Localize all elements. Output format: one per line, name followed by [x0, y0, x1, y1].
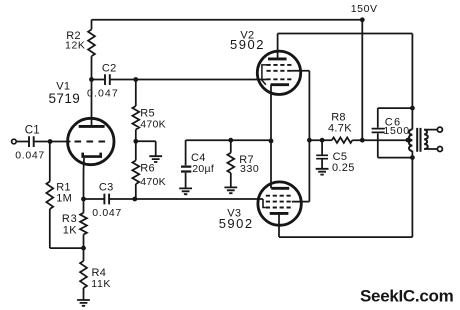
capacitor C5: [321, 140, 323, 154]
node: R1/R3/R4: [81, 246, 86, 251]
V3 control grid entry jog: [263, 199, 266, 208]
wire: R2/C2/V1-plate node to C2: [92, 79, 105, 81]
pentode V2 envelope: [257, 51, 300, 94]
svg-text:R8: R8: [331, 111, 346, 123]
wire: primary bottom to V3 cathode return: [411, 151, 413, 237]
V2 plate: [268, 57, 287, 60]
wire: V3 cathode return: [279, 236, 412, 238]
svg-text:4.7K: 4.7K: [328, 123, 352, 135]
node: C6 bottom/primary bottom: [410, 155, 415, 160]
V3 cathode: [270, 212, 289, 215]
wire: screen bus V2-V3: [308, 71, 310, 202]
wire: B+ top rail from R2 top to 150V node: [92, 19, 363, 21]
wire: C3 to V3 control grid: [110, 198, 263, 200]
wire: V2 plate rail to output transformer: [278, 33, 413, 35]
ground: below C5: [316, 169, 329, 175]
node: primary tap: [406, 138, 411, 143]
capacitor C2: [105, 74, 110, 85]
wire: V3 screen lead: [292, 201, 310, 203]
V1 grid (dashed): [75, 141, 107, 143]
svg-text:11K: 11K: [91, 278, 111, 290]
output terminal top: [437, 127, 442, 132]
V2 suppressor-cathode tie: [262, 65, 267, 85]
wire: C2 to V2 control grid: [111, 79, 267, 81]
ground: below C4: [179, 188, 192, 194]
capacitor C4: [185, 140, 187, 165]
wire: V1 cathode lead: [83, 158, 86, 199]
svg-text:SeekIC.com: SeekIC.com: [360, 286, 454, 305]
svg-text:R6: R6: [140, 162, 155, 174]
V2 grids (dashed): [267, 65, 292, 79]
wire: C1 to V1 control grid: [35, 141, 71, 143]
svg-text:5902: 5902: [219, 216, 254, 231]
svg-text:5719: 5719: [49, 91, 81, 106]
wire: V2 cathode to V3 plate: [270, 85, 272, 189]
resistor R6: [132, 161, 139, 185]
node: R5/R6/ground tap: [133, 139, 138, 144]
wire: R1 bottom to R3/R4 junction: [50, 247, 84, 249]
svg-text:1M: 1M: [56, 193, 72, 205]
transformer T1 core: [417, 128, 420, 152]
resistor R8: [332, 137, 352, 143]
resistor R7: [230, 140, 232, 153]
output terminal bottom: [437, 147, 442, 152]
wire: screen node to R8: [309, 139, 332, 141]
svg-text:1K: 1K: [63, 224, 77, 236]
svg-text:330: 330: [240, 163, 259, 175]
capacitor C1: [29, 136, 34, 147]
input terminal: [12, 139, 17, 144]
wire: secondary leads: [424, 130, 437, 149]
svg-text:C2: C2: [102, 63, 117, 75]
resistor R4: [83, 248, 85, 261]
wire: transformer primary top drop: [411, 34, 413, 130]
wire: V2 screen lead: [292, 70, 310, 72]
svg-text:470K: 470K: [140, 176, 166, 188]
capacitor C3: [104, 194, 109, 205]
wire: cathode node to C3: [84, 198, 104, 200]
svg-text:R3: R3: [62, 213, 78, 225]
node: C5 tap: [320, 138, 325, 143]
wire: V2 plate lead: [277, 34, 279, 59]
wire: V3 cathode drop: [278, 213, 280, 237]
wire: R5/R6 midpoint ground tap: [136, 141, 156, 156]
svg-text:150V: 150V: [351, 3, 378, 15]
V1 plate: [79, 125, 105, 128]
svg-text:5902: 5902: [230, 37, 265, 52]
V3 grids (dashed): [266, 196, 292, 208]
svg-text:0.047: 0.047: [92, 207, 122, 219]
svg-text:470K: 470K: [140, 118, 166, 130]
ground: R5/R6 midpoint: [149, 156, 162, 162]
V3 plate: [271, 187, 289, 190]
svg-text:C1: C1: [25, 125, 40, 137]
ground: below R7: [224, 187, 237, 193]
resistor R2: [91, 20, 93, 30]
svg-text:C3: C3: [99, 182, 114, 194]
pentode V3 envelope: [258, 182, 301, 225]
node: R7 top: [228, 138, 233, 143]
V2 cathode: [271, 83, 289, 86]
svg-text:0.25: 0.25: [332, 162, 355, 174]
resistor R5: [135, 80, 137, 107]
V1 cathode: [83, 153, 101, 157]
wire: R5/R6 junction: [135, 130, 137, 161]
wire: input to C1: [16, 141, 28, 143]
svg-text:1500: 1500: [383, 125, 410, 137]
node: C2/R5/V2 grid: [133, 77, 138, 82]
wire: 150V feed drop to R8/screen node: [361, 20, 363, 140]
node: 150V supply: [360, 17, 365, 22]
resistor R1: [49, 142, 51, 182]
node: 150V/R8: [360, 138, 365, 143]
capacitor C6: [372, 129, 385, 133]
ground: below R4: [77, 300, 90, 306]
node: input/R1/V1 grid: [48, 139, 53, 144]
node: V2 cathode/V3 plate/C4-R7: [269, 139, 274, 144]
wire: C4/R7 top rail to V2 cathode node: [186, 139, 271, 141]
node: R6/C3 output: [132, 197, 137, 202]
capacitor C6 branch: [378, 108, 413, 128]
node: R2/C2/V1 plate: [89, 77, 94, 82]
svg-text:0.047: 0.047: [15, 149, 45, 161]
node: screen bus/R8: [307, 138, 312, 143]
wire: R8 to 150V node and primary tap: [352, 139, 409, 141]
svg-text:0.047: 0.047: [87, 88, 119, 100]
triode V1 envelope: [68, 118, 114, 164]
svg-text:12K: 12K: [65, 39, 85, 51]
resistor R3: [83, 199, 85, 213]
svg-text:20µf: 20µf: [192, 163, 214, 175]
wire: V1 plate lead: [91, 80, 93, 127]
node: C6 top: [410, 106, 415, 111]
node: V1 cathode/C3/R3: [81, 197, 86, 202]
transformer T1 secondary winding: [424, 130, 428, 149]
transformer T1 primary winding: [409, 129, 412, 151]
